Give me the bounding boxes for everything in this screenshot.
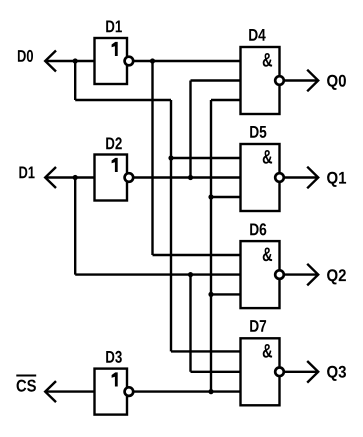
node CS overline xyxy=(16,374,36,376)
inverter D3 value 1 xyxy=(112,372,118,386)
output arrow Q0 xyxy=(307,70,318,92)
gate D5 xyxy=(241,144,280,211)
wire EN to D4 input 3 xyxy=(211,99,241,101)
wire D1 input to D2 xyxy=(45,176,94,178)
wire nD0 to D6 input 1 xyxy=(153,254,241,256)
node Q2 label xyxy=(327,269,346,284)
gate D6 output bubble xyxy=(275,270,284,279)
wire nD0 vertical bus xyxy=(151,61,153,255)
gate D5 label xyxy=(250,126,266,138)
junction D0 xyxy=(73,58,78,63)
inverter D2 value 1 xyxy=(112,158,118,172)
node D0 label xyxy=(18,50,33,62)
node Q3 label xyxy=(327,366,346,381)
inverter D2 label xyxy=(106,137,122,149)
wire D4 output xyxy=(280,79,319,81)
wire D1 to D6 input 2 xyxy=(75,273,240,275)
node CS label xyxy=(17,380,36,392)
gate D7 xyxy=(241,338,280,405)
gate D7 output bubble xyxy=(275,368,284,377)
output arrow Q1 xyxy=(307,167,318,189)
gate D4 symbol xyxy=(263,53,272,67)
wire EN to D5 input 3 xyxy=(211,196,241,198)
wire D1 vertical lower xyxy=(189,275,191,372)
gate D7 label xyxy=(250,320,266,332)
wire EN to D6 input 3 xyxy=(211,293,241,295)
junction nD1 xyxy=(188,175,193,180)
wire D2 output to D5 input 2 xyxy=(127,176,241,178)
inverter D1 output bubble xyxy=(125,57,134,66)
wire D0 to D5 input 1 xyxy=(171,157,241,159)
gate D6 symbol xyxy=(263,248,272,262)
junction nD0 top xyxy=(150,58,155,63)
wire D0 branch horizontal xyxy=(75,99,171,101)
input arrow D0 xyxy=(45,51,56,72)
junction D1 to D7 xyxy=(188,272,193,277)
wire D7 output xyxy=(280,371,319,373)
wire nD1 to D4 input 2 xyxy=(191,79,241,81)
node D1 label xyxy=(19,167,34,179)
gate D4 label xyxy=(249,29,266,41)
gate D6 xyxy=(241,241,280,308)
wire D0 input to D1 xyxy=(45,60,94,62)
inverter D3 output bubble xyxy=(125,387,134,396)
inverter D1 label xyxy=(106,21,122,33)
junction EN to D5 xyxy=(208,194,213,199)
wire D0 to D7 input 1 xyxy=(171,350,241,352)
inverter D3 label xyxy=(106,351,122,363)
inverter D2 output bubble xyxy=(125,173,134,182)
input arrow D1 xyxy=(45,167,56,188)
gate D5 output bubble xyxy=(275,173,284,182)
output arrow Q3 xyxy=(307,361,318,383)
junction D0 to D5 xyxy=(168,155,173,160)
node Q1 label xyxy=(327,172,346,187)
wire nD1 vertical xyxy=(189,81,191,178)
inverter D1 xyxy=(95,38,128,84)
junction EN to D6 xyxy=(208,292,213,297)
inverter D3 xyxy=(95,369,128,415)
wire EN vertical bus xyxy=(210,100,212,392)
output arrow Q2 xyxy=(307,264,318,286)
gate D4 output bubble xyxy=(275,76,284,85)
wire D1 to D7 input 2 xyxy=(191,371,241,373)
inverter D2 xyxy=(95,155,128,201)
gate D7 symbol xyxy=(263,344,272,358)
wire CS input to D3 xyxy=(45,390,94,392)
gate D6 label xyxy=(250,223,266,235)
wire D1 output to D4 input 1 xyxy=(127,60,241,62)
wire D0 vertical bus xyxy=(170,100,172,351)
input arrow CS xyxy=(45,381,56,402)
junction D1 xyxy=(73,175,78,180)
junction EN bottom xyxy=(208,389,213,394)
wire D5 output xyxy=(280,176,319,178)
wire D3 output to D7 input 3 xyxy=(127,390,241,392)
wire D6 output xyxy=(280,273,319,275)
inverter D1 value 1 xyxy=(112,42,118,56)
wire D0 branch vertical xyxy=(74,61,76,100)
gate D5 symbol xyxy=(263,150,272,164)
gate D4 xyxy=(241,47,280,114)
node Q0 label xyxy=(327,75,346,90)
wire D1 branch vertical xyxy=(74,178,76,275)
